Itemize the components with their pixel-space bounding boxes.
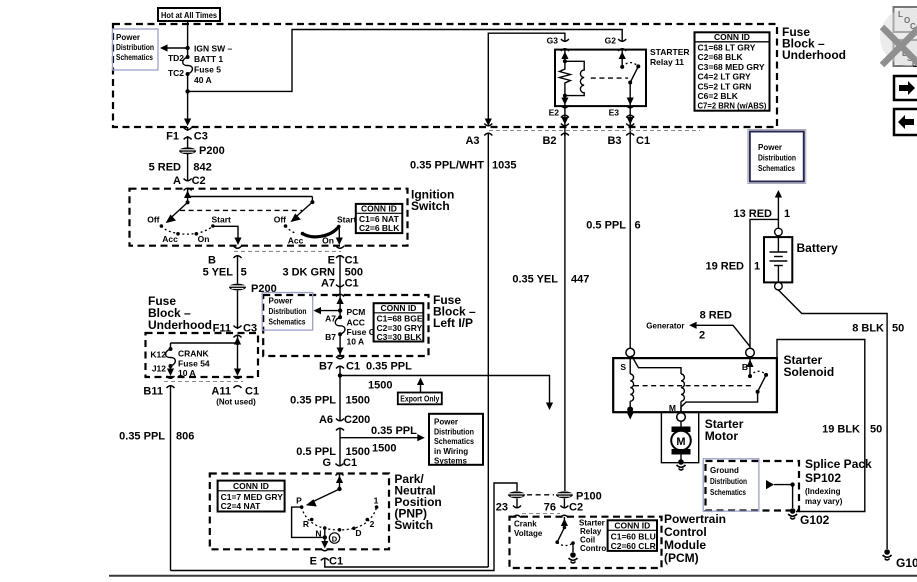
- connector P200 (top): [179, 147, 196, 154]
- svg-text:806: 806: [176, 431, 194, 443]
- splice pack SP102 dashed box: [706, 461, 800, 511]
- svg-text:C1=60 BLU: C1=60 BLU: [611, 531, 656, 541]
- wire 0.35 YEL 447 (B2 down to P100): [564, 134, 566, 491]
- svg-text:B2: B2: [542, 135, 556, 147]
- svg-text:Powertrain: Powertrain: [664, 512, 726, 526]
- svg-text:Solenoid: Solenoid: [784, 365, 835, 379]
- motor ground: [677, 459, 686, 470]
- svg-text:Schematics: Schematics: [710, 488, 746, 497]
- node E / C1 (PNP output): [321, 549, 329, 561]
- wire B7 down: [339, 367, 341, 421]
- svg-text:(Indexing: (Indexing: [805, 487, 841, 496]
- svg-text:19 RED: 19 RED: [705, 261, 744, 273]
- svg-text:C1: C1: [245, 386, 259, 398]
- node F1 / C3: [184, 128, 192, 140]
- ignition pole 2 start wire to E: [338, 227, 340, 241]
- svg-text:ACC: ACC: [347, 318, 365, 328]
- wire 5 YEL 5 (B down to F11): [237, 256, 239, 284]
- solenoid switch blade: [758, 375, 767, 392]
- svg-text:Schematics: Schematics: [758, 164, 795, 173]
- svg-text:E: E: [328, 255, 335, 267]
- svg-text:Schematics: Schematics: [269, 318, 306, 327]
- svg-text:CONN ID: CONN ID: [381, 303, 417, 313]
- ignition switch feed: [184, 191, 191, 199]
- svg-text:C1: C1: [343, 457, 357, 469]
- solenoid mechanical link: [634, 385, 754, 387]
- svg-text:M: M: [669, 403, 676, 413]
- svg-text:Systems: Systems: [434, 457, 467, 466]
- hot at all times box: [158, 8, 220, 21]
- node A11 / C1 (not used): [234, 376, 242, 388]
- svg-text:40 A: 40 A: [194, 75, 212, 85]
- ignition switch pole 1 blade: [169, 202, 188, 219]
- svg-text:Distribution: Distribution: [434, 427, 474, 436]
- svg-text:C6=2 BLK: C6=2 BLK: [698, 91, 739, 101]
- svg-text:C2=4 NAT: C2=4 NAT: [221, 501, 262, 511]
- A7 entry into left I/P block: [339, 295, 341, 317]
- branch to power distribution schematics in wiring systems: [338, 373, 342, 377]
- fuse block underhood (top) dashed box: [113, 24, 777, 127]
- relay coil: [565, 61, 584, 95]
- svg-text:447: 447: [571, 274, 589, 286]
- starter solenoid box: [613, 348, 834, 421]
- solenoid switch dotted travel arc: [750, 371, 766, 376]
- svg-text:Underhood: Underhood: [782, 48, 846, 62]
- svg-text:B11: B11: [143, 386, 163, 398]
- ignition pole 1 start wire to B: [213, 226, 238, 240]
- svg-text:J12: J12: [152, 364, 166, 374]
- wire 19 BLK 50 (solenoid case to G102): [777, 340, 865, 512]
- svg-text:Off: Off: [147, 214, 159, 224]
- PNP blade: [311, 489, 340, 503]
- disabled X overlay: [880, 8, 917, 66]
- svg-text:C1=68 LT GRY: C1=68 LT GRY: [698, 43, 756, 53]
- connector P100: [508, 491, 525, 498]
- svg-text:0.35 PPL: 0.35 PPL: [290, 395, 336, 407]
- svg-text:5 RED: 5 RED: [149, 162, 181, 174]
- fuse block left I/P dashed box: [263, 295, 428, 356]
- bottom page border line: [109, 575, 917, 577]
- svg-text:0.5 PPL: 0.5 PPL: [586, 220, 626, 232]
- motor case: [661, 412, 698, 463]
- wire 3 DK GRN 500 (E down to A7): [339, 256, 341, 294]
- solenoid pull-in winding: [632, 356, 682, 375]
- connector face row under fuse block: [489, 130, 700, 132]
- svg-text:76: 76: [544, 502, 556, 514]
- wire from hot at all times down to fuse 5: [187, 20, 189, 57]
- wire 19 RED 1 (battery to solenoid B): [750, 219, 778, 348]
- wire battery to power distribution box (13 RED 1): [777, 194, 779, 228]
- svg-text:C3: C3: [194, 131, 208, 143]
- svg-text:Hot at All Times: Hot at All Times: [161, 10, 217, 20]
- svg-text:C2: C2: [569, 502, 583, 514]
- svg-text:6: 6: [635, 220, 641, 232]
- wire F1 down to ignition switch: [187, 127, 189, 131]
- nav button DESC (disabled): [894, 40, 917, 69]
- wire fuse output to relay G2: [188, 30, 623, 92]
- svg-text:Start: Start: [212, 214, 232, 224]
- svg-text:may vary): may vary): [805, 497, 843, 506]
- wire E to A3 riser: [325, 559, 489, 567]
- nav button prev (left arrow): [894, 109, 917, 135]
- svg-text:(PCM): (PCM): [664, 551, 699, 565]
- wire 0.35 PPL 806 (B11 down): [170, 386, 172, 571]
- svg-text:BATT 1: BATT 1: [194, 54, 223, 64]
- conn id table (ignition switch): [356, 204, 403, 233]
- svg-text:8 RED: 8 RED: [700, 310, 732, 322]
- svg-text:C1: C1: [636, 135, 650, 147]
- ignition switch dashed box: [130, 189, 408, 246]
- svg-text:A3: A3: [465, 135, 479, 147]
- ground G104: [883, 549, 892, 560]
- svg-text:P: P: [296, 496, 302, 506]
- svg-text:Voltage: Voltage: [514, 529, 543, 538]
- svg-text:F1: F1: [166, 131, 179, 143]
- svg-text:PCM: PCM: [347, 307, 366, 317]
- conn id table (left I/P): [374, 303, 424, 342]
- conn id table (underhood fuse block): [695, 32, 770, 111]
- svg-text:D: D: [332, 534, 338, 543]
- svg-text:SP102: SP102: [805, 471, 841, 485]
- starter motor: [661, 412, 743, 470]
- svg-text:842: 842: [193, 162, 211, 174]
- svg-text:Crank: Crank: [514, 520, 537, 529]
- svg-text:C7=2 BRN (w/ABS): C7=2 BRN (w/ABS): [698, 101, 767, 111]
- starter relay 11: [547, 36, 690, 118]
- svg-text:1: 1: [784, 208, 790, 220]
- wire 8 RED 2 to generator: [693, 325, 750, 346]
- svg-text:10 A: 10 A: [347, 337, 365, 347]
- connector face row under crank fuse block: [164, 381, 243, 383]
- PNP circled D (drive): [329, 533, 339, 543]
- PNP P contact to output path: [292, 507, 325, 537]
- svg-text:Distribution: Distribution: [116, 43, 154, 52]
- svg-text:A7: A7: [325, 314, 336, 324]
- svg-text:0.35 YEL: 0.35 YEL: [512, 274, 558, 286]
- node E / C1: [336, 246, 344, 258]
- svg-text:C4=2 LT GRY: C4=2 LT GRY: [698, 72, 751, 82]
- svg-text:E: E: [310, 556, 317, 568]
- arrow to power distribution schematics: [185, 46, 189, 50]
- relay mechanical link: [591, 77, 628, 79]
- svg-text:A6: A6: [319, 414, 333, 426]
- svg-text:TC2: TC2: [168, 68, 184, 78]
- svg-text:Power: Power: [434, 418, 458, 427]
- export only tag: [398, 393, 442, 405]
- ground G102: [788, 508, 797, 519]
- svg-text:0.35 PPL: 0.35 PPL: [371, 425, 417, 437]
- svg-text:A: A: [173, 175, 181, 187]
- svg-text:2: 2: [370, 519, 375, 529]
- ignition switch pole 2 blade: [294, 202, 312, 218]
- svg-text:1500: 1500: [372, 443, 396, 455]
- svg-text:0.35 PPL/WHT: 0.35 PPL/WHT: [410, 160, 484, 172]
- ground distribution schematics box (blue): [703, 459, 759, 511]
- svg-text:Control: Control: [580, 544, 608, 553]
- svg-text:CRANK: CRANK: [178, 349, 210, 359]
- svg-text:D: D: [355, 528, 361, 538]
- relay wires E2/E3 down to connector row: [564, 107, 566, 136]
- svg-text:On: On: [322, 236, 334, 246]
- crank fuse feed: [237, 336, 239, 372]
- power distribution schematics box (battery, navy): [748, 130, 806, 184]
- solenoid terminal B: [746, 348, 755, 357]
- wire 0.5 PPL 6 (B3 down to solenoid S): [629, 134, 631, 348]
- relay coil resistor: [559, 61, 570, 95]
- nav button LOC (disabled): [894, 7, 917, 32]
- svg-text:C1: C1: [329, 556, 343, 568]
- conn id table (PNP switch): [218, 481, 285, 512]
- svg-text:Schematics: Schematics: [434, 437, 474, 446]
- svg-text:19 BLK: 19 BLK: [822, 424, 860, 436]
- svg-text:Power: Power: [758, 143, 782, 152]
- svg-text:C2: C2: [192, 175, 206, 187]
- fuse block underhood (crank fuse) dashed box: [146, 333, 259, 377]
- svg-text:Acc: Acc: [162, 234, 178, 244]
- conn id table (PCM): [608, 520, 657, 551]
- svg-text:Left I/P: Left I/P: [433, 316, 473, 330]
- svg-text:B3: B3: [607, 135, 621, 147]
- svg-text:Acc: Acc: [288, 236, 304, 246]
- connector face row under ignition switch: [234, 250, 341, 252]
- svg-text:1: 1: [754, 261, 760, 273]
- svg-text:Switch: Switch: [411, 199, 450, 213]
- svg-text:Generator: Generator: [646, 322, 684, 331]
- svg-text:CONN ID: CONN ID: [233, 481, 269, 491]
- svg-text:1035: 1035: [492, 160, 516, 172]
- svg-text:Fuse G: Fuse G: [347, 327, 376, 337]
- svg-text:8 BLK: 8 BLK: [852, 323, 884, 335]
- arrow from A7 wire to power distribution box: [338, 308, 342, 312]
- svg-text:B: B: [208, 255, 216, 267]
- fuse G output down: [339, 334, 341, 356]
- svg-text:Splice Pack: Splice Pack: [805, 457, 872, 471]
- svg-text:C2=60 CLR: C2=60 CLR: [611, 541, 656, 551]
- svg-text:Ground: Ground: [710, 466, 739, 475]
- svg-text:1: 1: [374, 496, 379, 506]
- svg-text:E2: E2: [549, 108, 560, 118]
- svg-text:G3: G3: [547, 36, 559, 46]
- svg-text:K12: K12: [150, 350, 166, 360]
- svg-text:50: 50: [892, 323, 904, 335]
- nav button next (right arrow): [894, 76, 917, 100]
- svg-text:B7: B7: [319, 361, 333, 373]
- svg-text:Power: Power: [116, 33, 140, 42]
- node F11 / C3: [234, 326, 242, 338]
- svg-text:P200: P200: [199, 145, 225, 157]
- power distribution schematics box (left I/P, blue): [262, 293, 313, 331]
- svg-text:C3=30 BLK: C3=30 BLK: [377, 332, 423, 342]
- solenoid terminal S: [626, 348, 635, 357]
- relay switch dotted travel arc: [622, 63, 638, 67]
- wires P100 into PCM: [516, 499, 518, 509]
- svg-text:C1: C1: [346, 361, 360, 373]
- svg-text:Distribution: Distribution: [710, 477, 747, 486]
- svg-text:Distribution: Distribution: [758, 154, 796, 163]
- powertrain control module (PCM) dashed box: [510, 517, 662, 568]
- connector P200 (lower): [229, 284, 246, 291]
- svg-text:M: M: [676, 436, 685, 448]
- svg-text:Fuse 54: Fuse 54: [178, 359, 210, 369]
- svg-text:G102: G102: [800, 513, 830, 527]
- svg-text:Export Only: Export Only: [400, 395, 439, 404]
- node B: [234, 246, 242, 258]
- svg-text:5: 5: [241, 267, 247, 279]
- svg-text:50: 50: [870, 424, 882, 436]
- svg-text:Switch: Switch: [394, 518, 433, 532]
- node A3: [484, 124, 492, 136]
- svg-text:B7: B7: [325, 332, 336, 342]
- svg-text:C2=6 BLK: C2=6 BLK: [359, 223, 400, 233]
- power distribution schematics in wiring systems box: [429, 414, 483, 466]
- svg-text:G: G: [322, 457, 331, 469]
- svg-text:E3: E3: [609, 108, 620, 118]
- svg-text:C200: C200: [344, 414, 370, 426]
- svg-text:A7: A7: [321, 278, 335, 290]
- node A6 / C200: [336, 419, 344, 431]
- wire A3 riser to relay G3: [488, 33, 565, 123]
- PNP contacts arc: [300, 505, 304, 509]
- svg-text:R: R: [303, 519, 309, 529]
- svg-text:IGN SW –: IGN SW –: [194, 44, 233, 54]
- svg-text:C1: C1: [345, 278, 359, 290]
- wire fuse output down to F1: [187, 74, 189, 121]
- park/neutral position switch dashed box: [210, 474, 389, 550]
- svg-text:in Wiring: in Wiring: [434, 447, 468, 456]
- svg-text:Control: Control: [664, 525, 707, 539]
- svg-text:1500: 1500: [368, 380, 392, 392]
- svg-text:Start: Start: [337, 215, 357, 225]
- splice symbol: [766, 480, 774, 489]
- ignition mechanical link: [180, 209, 302, 211]
- node G / C1: [336, 464, 344, 476]
- svg-text:2: 2: [699, 330, 705, 342]
- svg-text:C3=68 MED GRY: C3=68 MED GRY: [698, 62, 765, 72]
- svg-text:CONN ID: CONN ID: [361, 204, 397, 214]
- solenoid hold-in winding: [629, 357, 631, 374]
- svg-text:G104: G104: [896, 556, 917, 570]
- svg-text:23: 23: [496, 502, 508, 514]
- power distribution schematics box (top left, blue): [113, 29, 159, 70]
- svg-text:5 YEL: 5 YEL: [203, 267, 234, 279]
- wire 0.35 PPL/WHT 1035 (A3 down): [487, 134, 489, 567]
- node B2: [561, 124, 569, 136]
- node B11: [167, 376, 175, 388]
- svg-text:CONN ID: CONN ID: [614, 520, 650, 530]
- relay switch blade: [630, 66, 638, 82]
- svg-text:Battery: Battery: [797, 241, 839, 255]
- PNP feed: [339, 474, 341, 489]
- svg-text:C5=2 LT GRN: C5=2 LT GRN: [698, 81, 752, 91]
- svg-text:(Not used): (Not used): [216, 398, 256, 407]
- wire 8 BLK 50 (battery negative to G104): [778, 290, 887, 549]
- PCM starter relay coil control switch: [563, 517, 565, 528]
- svg-text:Motor: Motor: [705, 429, 739, 443]
- svg-text:C2=68 BLK: C2=68 BLK: [698, 52, 744, 62]
- fuse G (PCM ACC 10 A): [335, 315, 345, 336]
- wire crank voltage to PCM (bottom left run): [171, 483, 518, 571]
- wire below A6: [339, 429, 341, 467]
- svg-text:Module: Module: [664, 538, 706, 552]
- svg-text:G2: G2: [605, 36, 617, 46]
- svg-text:C3: C3: [243, 323, 257, 335]
- svg-text:0.35 PPL: 0.35 PPL: [366, 361, 412, 373]
- ignition pole 2 contacts: [284, 224, 288, 228]
- crank fuse 54 10 A: [166, 347, 176, 368]
- svg-text:13 RED: 13 RED: [733, 208, 772, 220]
- svg-text:Underhood: Underhood: [148, 318, 212, 332]
- svg-text:TD2: TD2: [168, 53, 184, 63]
- svg-text:C1: C1: [345, 255, 359, 267]
- svg-text:Off: Off: [274, 215, 286, 225]
- svg-text:A11: A11: [211, 386, 231, 398]
- node B7 / C1 below left I/P: [336, 357, 344, 369]
- svg-text:Power: Power: [269, 297, 293, 306]
- PNP N contact output: [324, 528, 326, 543]
- svg-text:Relay 11: Relay 11: [650, 57, 684, 67]
- battery: [764, 228, 838, 290]
- node A / C2: [184, 179, 192, 191]
- svg-text:CONN ID: CONN ID: [714, 32, 750, 42]
- svg-text:1500: 1500: [346, 395, 370, 407]
- svg-text:STARTER: STARTER: [650, 47, 690, 57]
- svg-text:Distribution: Distribution: [269, 307, 307, 316]
- svg-text:Fuse 5: Fuse 5: [194, 65, 221, 75]
- node B3 / C1: [626, 124, 634, 136]
- svg-text:Schematics: Schematics: [116, 53, 153, 62]
- branch to power distribution schematics (wiring systems box): [340, 437, 421, 439]
- svg-text:10 A: 10 A: [178, 368, 196, 378]
- svg-text:0.35 PPL: 0.35 PPL: [119, 431, 165, 443]
- svg-text:F11: F11: [213, 323, 231, 335]
- ignition pole 1 contacts: [160, 224, 164, 228]
- svg-text:On: On: [198, 234, 210, 244]
- fuse 5 (IGN SW - BATT 1, 40 A): [183, 55, 193, 76]
- svg-text:S: S: [620, 362, 626, 372]
